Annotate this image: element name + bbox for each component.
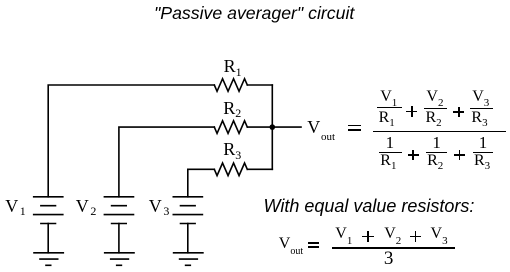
formula main fraction bar [373, 131, 505, 133]
bottom formula equals [308, 242, 319, 244]
plus sign denominator 2 [454, 154, 465, 156]
formula denominator fraction 1/R1 [386, 134, 395, 151]
wire R3 right lead [247, 168, 272, 170]
label V3 [149, 197, 170, 215]
formula numerator fraction V1/R1 [380, 89, 397, 105]
wire V2 riser and R2 left lead [119, 127, 214, 197]
bottom formula denominator 3 [384, 249, 394, 268]
bottom formula numerator V1 [335, 226, 352, 242]
formula denominator fraction 1/R3 [479, 134, 488, 151]
wire V1 riser and R1 left lead [48, 85, 214, 197]
formula numerator fraction V2/R2 [426, 89, 443, 105]
wire output to Vout label [272, 126, 301, 128]
label V2 [76, 197, 97, 215]
battery V2 [104, 197, 133, 253]
node output junction dot [270, 124, 276, 130]
resistor R3 [214, 163, 247, 176]
formula denominator fraction 1/R2 [432, 134, 441, 151]
resistor R2 [214, 121, 247, 134]
battery V1 [34, 197, 63, 253]
wire output bus vertical [271, 85, 273, 169]
bottom formula plus 2 [410, 236, 422, 238]
bottom formula numerator V2 [384, 226, 401, 242]
plus sign numerator 1 [406, 111, 417, 113]
wire R1 right lead [247, 84, 272, 86]
ground for V2 [105, 253, 134, 265]
plus sign denominator 1 [408, 154, 419, 156]
label R1 [224, 57, 242, 75]
battery V3 [173, 197, 202, 253]
wire V3 riser and R3 left lead [188, 169, 215, 197]
label V1 [5, 197, 26, 215]
plus sign numerator 2 [453, 111, 464, 113]
formula numerator fraction V3/R3 [472, 89, 489, 105]
label R3 [223, 140, 241, 158]
bottom formula fraction bar [332, 247, 455, 249]
ground for V3 [174, 253, 203, 265]
title [154, 4, 354, 22]
wire R2 right lead [247, 126, 272, 128]
ground for V1 [34, 253, 63, 265]
annotation with equal value resistors [264, 197, 475, 215]
equals sign after Vout [348, 125, 361, 127]
resistor R1 [214, 79, 247, 92]
bottom formula Vout [279, 236, 303, 252]
node Vout label [307, 118, 335, 136]
label R2 [223, 99, 241, 117]
bottom formula plus 1 [362, 236, 374, 238]
bottom formula numerator V3 [431, 226, 448, 242]
